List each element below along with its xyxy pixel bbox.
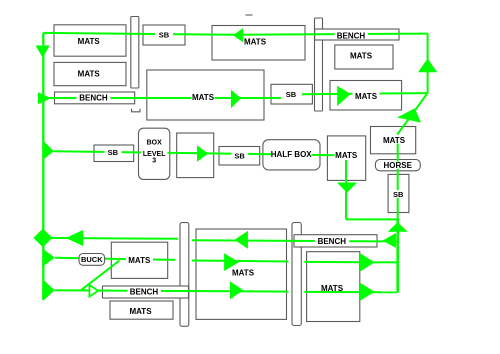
label SB top: [155, 31, 173, 40]
label BENCH top: [335, 30, 369, 40]
label MATS tall row3: [335, 151, 359, 160]
svg-text:HALF BOX: HALF BOX: [271, 150, 313, 159]
label BENCH3: [128, 288, 162, 297]
box big bottom MATS: [196, 229, 287, 319]
box MATS3 top right: [371, 127, 416, 154]
box big MATS row2: [147, 70, 264, 120]
wall W1 top-middle: [315, 18, 323, 111]
box SB3: [271, 84, 312, 104]
box MATS2: [54, 62, 126, 85]
wire horizontal y219: [346, 218, 398, 220]
wire y241 right segment through BENCH2: [192, 240, 398, 241]
label SB3: [284, 90, 300, 99]
label HORSE: [383, 161, 414, 170]
wire y238 left of wall W2: [43, 237, 178, 240]
label MATS5: [126, 256, 153, 266]
wire row3 (SB1 to tall MATS): [54, 151, 336, 155]
arrow diagonal into MATS3: [397, 108, 421, 122]
box MATS1: [54, 25, 126, 56]
label MATS big row2: [192, 93, 215, 102]
arrow left in big bottom box y239: [235, 231, 248, 249]
wire top right vertical: [427, 34, 429, 93]
label BENCH2: [315, 237, 350, 246]
arrow down on x346: [337, 183, 357, 193]
arrow right in big bottom box y262: [224, 253, 239, 271]
svg-text:MATS: MATS: [78, 70, 101, 79]
svg-text:BENCH: BENCH: [79, 94, 108, 103]
label BENCH1: [77, 93, 111, 102]
label HALF BOX: [271, 150, 313, 159]
wire vertical x346: [345, 160, 347, 219]
arrow left on top line: [233, 28, 243, 42]
arrow right at SB1 junction: [43, 141, 54, 160]
wall W3 bottom-middle: [292, 223, 301, 326]
svg-text:MATS: MATS: [335, 151, 358, 160]
label BOX LEVEL 3: [141, 139, 168, 164]
svg-text:BUCK: BUCK: [81, 255, 103, 264]
svg-text:MATS: MATS: [78, 37, 101, 46]
svg-text:MATS: MATS: [244, 38, 267, 47]
box BENCH3: [103, 286, 189, 298]
wall W0 top-left: [131, 17, 139, 89]
svg-text:MATS: MATS: [383, 136, 406, 145]
wire vertical x397 upper (MATS3-HORSE-SB4): [397, 144, 399, 220]
arrow left into BENCH2: [383, 233, 397, 248]
wire diagonal top right into MATS3: [397, 93, 427, 135]
wire left spine vertical: [42, 33, 44, 300]
box SB4: [388, 174, 409, 212]
arrow down top-left: [36, 46, 50, 58]
box BENCH1: [55, 92, 135, 104]
svg-text:SB: SB: [108, 148, 119, 157]
box MATS5: [111, 242, 167, 278]
arrow right in big MATS row2: [231, 90, 241, 109]
arrow right in plain rect row3: [197, 145, 208, 161]
label SB4: [392, 190, 405, 199]
svg-text:MATS: MATS: [350, 52, 373, 61]
svg-text:MATS: MATS: [232, 268, 255, 277]
arrow up on x397: [388, 222, 408, 231]
svg-text:BOX: BOX: [147, 139, 163, 146]
svg-text:MATS: MATS: [128, 256, 151, 265]
svg-text:3: 3: [152, 158, 156, 165]
arrow right at BUCK junction: [43, 249, 55, 266]
box plain rect row3: [177, 133, 214, 178]
U bracket below BENCH1: [132, 109, 141, 112]
svg-text:MATS: MATS: [192, 93, 215, 102]
box tall MATS row3: [327, 136, 365, 181]
arrow right at BENCH1 junction: [38, 92, 51, 104]
arrow hollow right on y290: [89, 285, 98, 297]
box HALF BOX: [263, 140, 320, 170]
wall W2 bottom-left-middle: [180, 223, 189, 327]
svg-text:SB: SB: [159, 31, 170, 40]
wire row2 right segment (SB3 to corner): [302, 93, 428, 94]
wire vertical x397 lower: [396, 218, 399, 292]
svg-text:SB: SB: [234, 151, 245, 160]
box BENCH2: [294, 235, 377, 247]
box MATS2b: [330, 81, 402, 111]
box BUCK: [79, 254, 105, 266]
wire y292 right segment into MATS4: [304, 291, 397, 293]
svg-text:BENCH: BENCH: [337, 32, 366, 41]
arrow left on y238 near diamond: [66, 230, 84, 246]
svg-text:SB: SB: [286, 90, 297, 99]
svg-text:BENCH: BENCH: [318, 237, 347, 246]
wire row2 left segment (BENCH1 to SB3): [43, 97, 281, 99]
wire y291 left segment through BENCH3: [55, 290, 289, 291]
svg-text:BENCH: BENCH: [130, 288, 159, 297]
box SB top row: [143, 25, 185, 45]
wire top line: [43, 33, 427, 35]
svg-text:SB: SB: [393, 190, 404, 199]
box BOX LEVEL 3: [139, 128, 170, 179]
label MATS2b: [353, 91, 380, 101]
svg-text:MATS: MATS: [129, 307, 152, 316]
wire diagonal bottom left: [81, 261, 120, 291]
arrow right in big bottom box y290: [230, 281, 243, 299]
box HORSE: [375, 160, 420, 171]
wire row BUCK y260 full: [55, 258, 175, 260]
box BENCH top: [315, 29, 399, 40]
box SB1: [94, 145, 134, 162]
box MATS6: [110, 301, 173, 319]
label SB2: [232, 150, 249, 160]
box SB2: [219, 147, 260, 166]
stray dash: [246, 14, 253, 16]
box MATS top row tall: [212, 26, 305, 61]
svg-text:MATS: MATS: [355, 92, 378, 101]
arrow up top right: [418, 58, 437, 72]
arrow right at y290 junction: [43, 280, 54, 301]
box MATS below top BENCH: [335, 45, 393, 69]
arrow right at MATS4 y292: [360, 283, 375, 301]
svg-text:MATS: MATS: [321, 284, 344, 293]
arrow right into MATS2b: [337, 86, 351, 106]
diamond junction on spine: [34, 229, 53, 248]
box MATS4 bottom right: [307, 252, 360, 322]
label SB1: [105, 148, 122, 157]
svg-text:HORSE: HORSE: [383, 161, 412, 170]
arrow right at MATS4 y262: [360, 253, 375, 272]
